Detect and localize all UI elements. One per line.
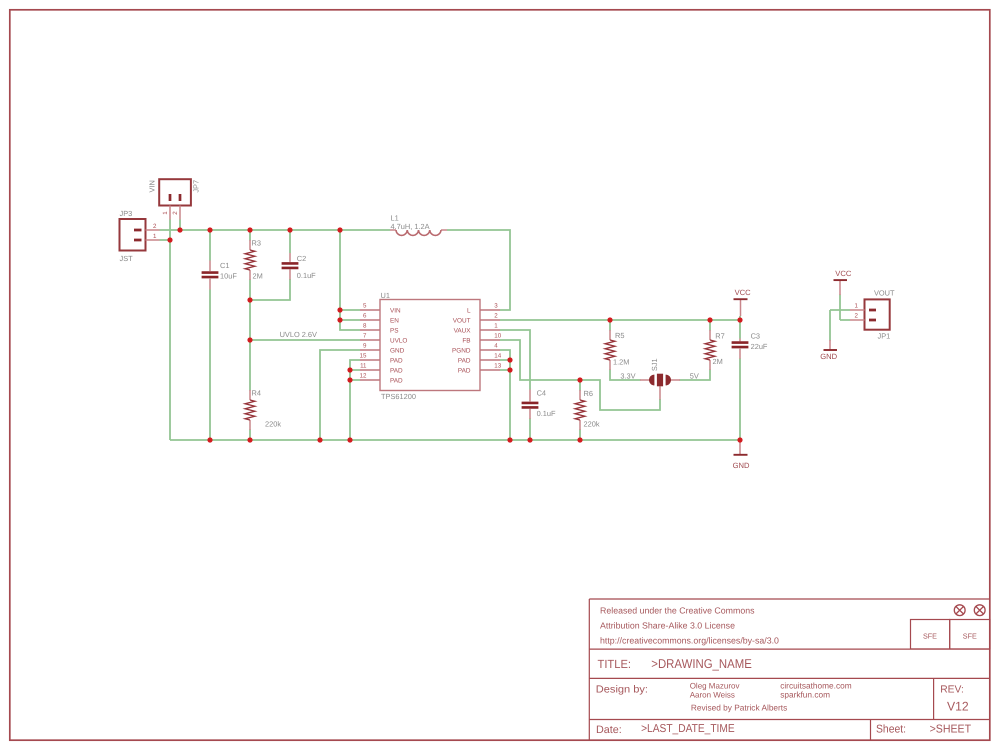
svg-text:3.3V: 3.3V [620,371,635,380]
resistor R4 [245,388,281,430]
U1 pin 8 PS [360,323,399,335]
svg-text:220k: 220k [584,420,600,429]
svg-text:R7: R7 [715,332,724,341]
circled-X icon left [954,605,965,616]
wire VIN rail net [160,220,511,311]
wire PAD pins left [350,360,360,440]
U1 pin 11 PAD [360,363,403,375]
TITLE BLOCK [589,599,990,740]
node pad14 junction [507,357,512,362]
svg-text:1: 1 [153,233,157,240]
wire GND pin9 [320,350,360,440]
node pad12 junction [347,377,352,382]
svg-text:VAUX: VAUX [454,327,472,334]
svg-text:2M: 2M [253,272,263,281]
svg-text:FB: FB [462,337,470,344]
U1 pin 1 VAUX [454,323,500,335]
svg-text:R4: R4 [252,388,261,397]
svg-text:22uF: 22uF [751,342,768,351]
svg-text:6: 6 [363,313,367,320]
svg-text:>SHEET: >SHEET [930,724,972,736]
svg-text:PAD: PAD [390,357,403,364]
svg-text:VIN: VIN [390,307,401,314]
svg-text:PAD: PAD [390,377,403,384]
node R4 bottom junction [247,437,252,442]
resistor R3 [245,239,263,281]
resistor R6 [575,389,600,430]
svg-text:2: 2 [172,211,179,215]
node C4 rail junction [527,437,532,442]
svg-text:4.7uH, 1.2A: 4.7uH, 1.2A [391,222,430,231]
svg-text:sparkfun.com: sparkfun.com [780,690,830,700]
wire VAUX to C4 [500,330,530,390]
svg-text:C2: C2 [297,254,306,263]
svg-text:C1: C1 [220,261,229,270]
svg-text:5V: 5V [690,372,699,381]
svg-text:http://creativecommons.org/lic: http://creativecommons.org/licenses/by-s… [600,635,779,645]
wire C4 bottom [529,419,531,441]
capacitor C4 [522,388,556,419]
svg-text:JP1: JP1 [878,332,891,341]
svg-text:GND: GND [733,461,750,470]
svg-text:JP7: JP7 [192,180,201,193]
node R6 top junction [577,377,582,382]
U1 pin 6 EN [360,313,399,325]
svg-text:JP3: JP3 [120,209,133,218]
U1 pin 9 GND [360,343,405,355]
node L1 left junction [337,227,342,232]
svg-text:10uF: 10uF [220,272,237,281]
svg-text:SFE: SFE [963,632,977,641]
svg-text:REV:: REV: [940,684,964,695]
Sheet cell divider [870,720,872,741]
node pad11 junction [347,367,352,372]
svg-text:8: 8 [363,323,367,330]
connector JP1 [850,288,895,340]
svg-text:Attribution Share-Alike 3.0 Li: Attribution Share-Alike 3.0 License [600,620,735,630]
SFE box right [950,620,990,649]
supply VCC out [834,269,852,295]
svg-text:VIN: VIN [148,180,157,192]
svg-text:GND: GND [390,347,405,354]
svg-text:>LAST_DATE_TIME: >LAST_DATE_TIME [641,723,735,735]
node R5 top junction [607,317,612,322]
REV cell divider [933,678,935,719]
svg-text:5: 5 [363,303,367,310]
U1 pin 2 VOUT [453,313,500,325]
capacitor C1 [202,261,238,290]
wire UVLO net [250,339,360,341]
svg-text:Aaron Weiss: Aaron Weiss [690,691,735,700]
wire FB net [500,340,660,410]
svg-text:13: 13 [494,363,501,370]
svg-text:Design by:: Design by: [596,685,648,696]
svg-text:UVLO: UVLO [390,337,407,344]
svg-text:1.2M: 1.2M [613,358,629,367]
capacitor C2 [282,253,317,280]
wire R3-R4 column net [249,230,251,440]
title block row line 1 [589,648,990,650]
U1 pin 4 PGND [452,343,500,355]
svg-text:R3: R3 [252,239,261,248]
svg-text:1: 1 [494,323,498,330]
node UVLO junction [247,337,252,342]
svg-text:2: 2 [855,313,859,320]
node PGND rail junction [507,437,512,442]
op-amp U1 body [380,291,480,401]
supply VCC main [734,288,752,316]
svg-text:C4: C4 [537,388,546,397]
svg-text:R6: R6 [584,389,593,398]
svg-text:PAD: PAD [390,367,403,374]
resistor R7 [705,330,725,370]
node R3 top junction [247,227,252,232]
title block row line 2 [589,677,990,679]
resistor R5 [605,330,629,370]
svg-text:SJ1: SJ1 [650,358,659,371]
svg-text:2M: 2M [713,357,723,366]
wire JP1 nets [830,295,850,341]
wire 5V net [680,370,711,381]
ground GND main [733,440,750,470]
node JP3 pin1 junction [167,237,172,242]
svg-text:GND: GND [820,352,837,361]
svg-text:Revised by Patrick Alberts: Revised by Patrick Alberts [691,702,787,712]
node pad13 junction [507,367,512,372]
inductor L1 [390,213,447,235]
svg-text:4: 4 [494,343,498,350]
svg-text:PAD: PAD [458,367,471,374]
svg-text:L: L [467,307,471,314]
U1 pin 7 UVLO [360,333,407,345]
capacitor C3 [732,332,768,359]
svg-text:3: 3 [494,303,498,310]
title block row line 3 [589,719,990,721]
svg-text:TPS61200: TPS61200 [381,392,416,401]
svg-text:VOUT: VOUT [453,317,471,324]
node R3 bottom junction [247,297,252,302]
svg-text:1: 1 [162,211,169,215]
wire GND left net [160,220,741,441]
title block frame [589,599,990,740]
wire C2 top [289,230,291,253]
node GND9 rail junction [317,437,322,442]
svg-text:>DRAWING_NAME: >DRAWING_NAME [651,656,752,671]
svg-text:PAD: PAD [458,357,471,364]
svg-text:EN: EN [390,317,399,324]
node C2 top junction [287,227,292,232]
svg-text:TITLE:: TITLE: [598,657,632,671]
U1 pin 14 PAD [458,353,502,365]
node C3 rail junction [737,437,742,442]
U1 pin 10 FB [462,333,501,345]
svg-text:V12: V12 [947,700,969,714]
wire C3 bottom [739,359,741,441]
connector JP7 [148,179,201,219]
svg-text:PGND: PGND [452,347,471,354]
wire C1 leads net [209,230,211,440]
node R7 top junction [707,317,712,322]
node pin5 junction [337,307,342,312]
svg-text:VCC: VCC [835,269,852,278]
svg-text:10: 10 [494,333,501,340]
svg-text:2: 2 [494,313,498,320]
svg-text:U1: U1 [381,291,390,300]
svg-text:1: 1 [855,303,859,310]
svg-text:14: 14 [494,353,501,360]
wire R6 leads [579,380,581,440]
svg-text:0.1uF: 0.1uF [537,409,556,418]
svg-text:220k: 220k [265,420,281,429]
wire 3.3V net [610,370,641,381]
svg-text:Sheet:: Sheet: [876,723,906,735]
svg-text:C3: C3 [751,332,760,341]
svg-text:7: 7 [363,333,367,340]
node C1 top junction [207,227,212,232]
connector JP3 [120,209,160,263]
wire U1 left pins 5 6 8 [340,230,360,330]
svg-text:0.1uF: 0.1uF [297,271,316,280]
node R6 rail junction [577,437,582,442]
svg-text:VOUT: VOUT [874,288,895,297]
circled-X icon right [974,605,985,616]
svg-text:9: 9 [363,343,367,350]
svg-text:SFE: SFE [923,632,937,641]
node pin6 junction [337,317,342,322]
svg-text:Oleg Mazurov: Oleg Mazurov [690,682,740,691]
solder jumper SJ1 [640,358,680,399]
node VCC C3 junction [737,317,742,322]
U1 pin 13 PAD [458,363,502,375]
U1 pin 15 PAD [360,353,403,365]
node C1 bottom junction [207,437,212,442]
svg-text:JST: JST [120,254,134,263]
wire PGND net [500,350,510,440]
svg-text:UVLO 2.6V: UVLO 2.6V [280,330,317,339]
svg-text:R5: R5 [615,331,624,340]
U1 pin 5 VIN [360,303,401,315]
svg-text:Date:: Date: [596,724,622,736]
svg-text:2: 2 [153,223,157,230]
svg-text:Released under the Creative Co: Released under the Creative Commons [600,605,755,615]
svg-text:12: 12 [360,373,367,380]
svg-text:15: 15 [360,353,367,360]
SFE box left [911,620,950,649]
wire R3-C2 link [250,279,290,300]
node JP7 pin2 junction [177,227,182,232]
svg-text:VCC: VCC [735,288,752,297]
wire VOUT rail net [500,316,740,339]
svg-text:11: 11 [360,363,367,370]
U1 pin 3 L [467,303,500,315]
node PAD rail junction [347,437,352,442]
svg-text:PS: PS [390,327,399,334]
U1 pin 12 PAD [360,373,403,385]
ground GND out [820,340,837,361]
